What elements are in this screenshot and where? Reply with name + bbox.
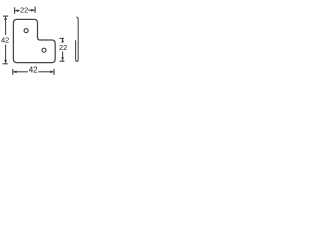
svg-text:42: 42 bbox=[29, 66, 38, 75]
neighbour drawing fragment: edge lines with bottom U-turn bbox=[76, 17, 79, 62]
dimension bottom 42: left arrow bbox=[13, 71, 28, 73]
hole H2 (lower arm) bbox=[42, 48, 46, 52]
svg-text:22: 22 bbox=[20, 6, 28, 15]
dimension bottom 42: left extension tick bbox=[12, 69, 14, 75]
svg-text:42: 42 bbox=[1, 36, 9, 45]
dimension left 42: top extension tick bbox=[3, 15, 8, 17]
dimension right 22: lower arrow bbox=[62, 51, 64, 60]
dimension left 42: upper arrow bbox=[5, 17, 7, 35]
dimension right 22: upper arrow bbox=[62, 39, 64, 43]
dimension right 22: top extension tick bbox=[60, 37, 64, 39]
dimension left 42: lower arrow bbox=[5, 45, 7, 64]
bracket outline (L-shaped plate) bbox=[13, 19, 55, 62]
hole H1 (upper arm) bbox=[24, 29, 28, 33]
svg-text:22: 22 bbox=[59, 43, 67, 52]
dimension bottom 42: right arrow bbox=[38, 71, 53, 73]
dimension top 22: right extension tick bbox=[34, 7, 36, 13]
dimension top 22: left extension tick bbox=[14, 7, 16, 13]
dimension top 22: left arrow bbox=[15, 10, 19, 12]
dimension bottom 42: right extension tick bbox=[53, 69, 55, 75]
dimension left 42: bottom extension tick bbox=[3, 63, 8, 65]
dimension top 22: right arrow bbox=[28, 9, 34, 11]
dimension right 22: bottom extension tick bbox=[60, 60, 65, 62]
